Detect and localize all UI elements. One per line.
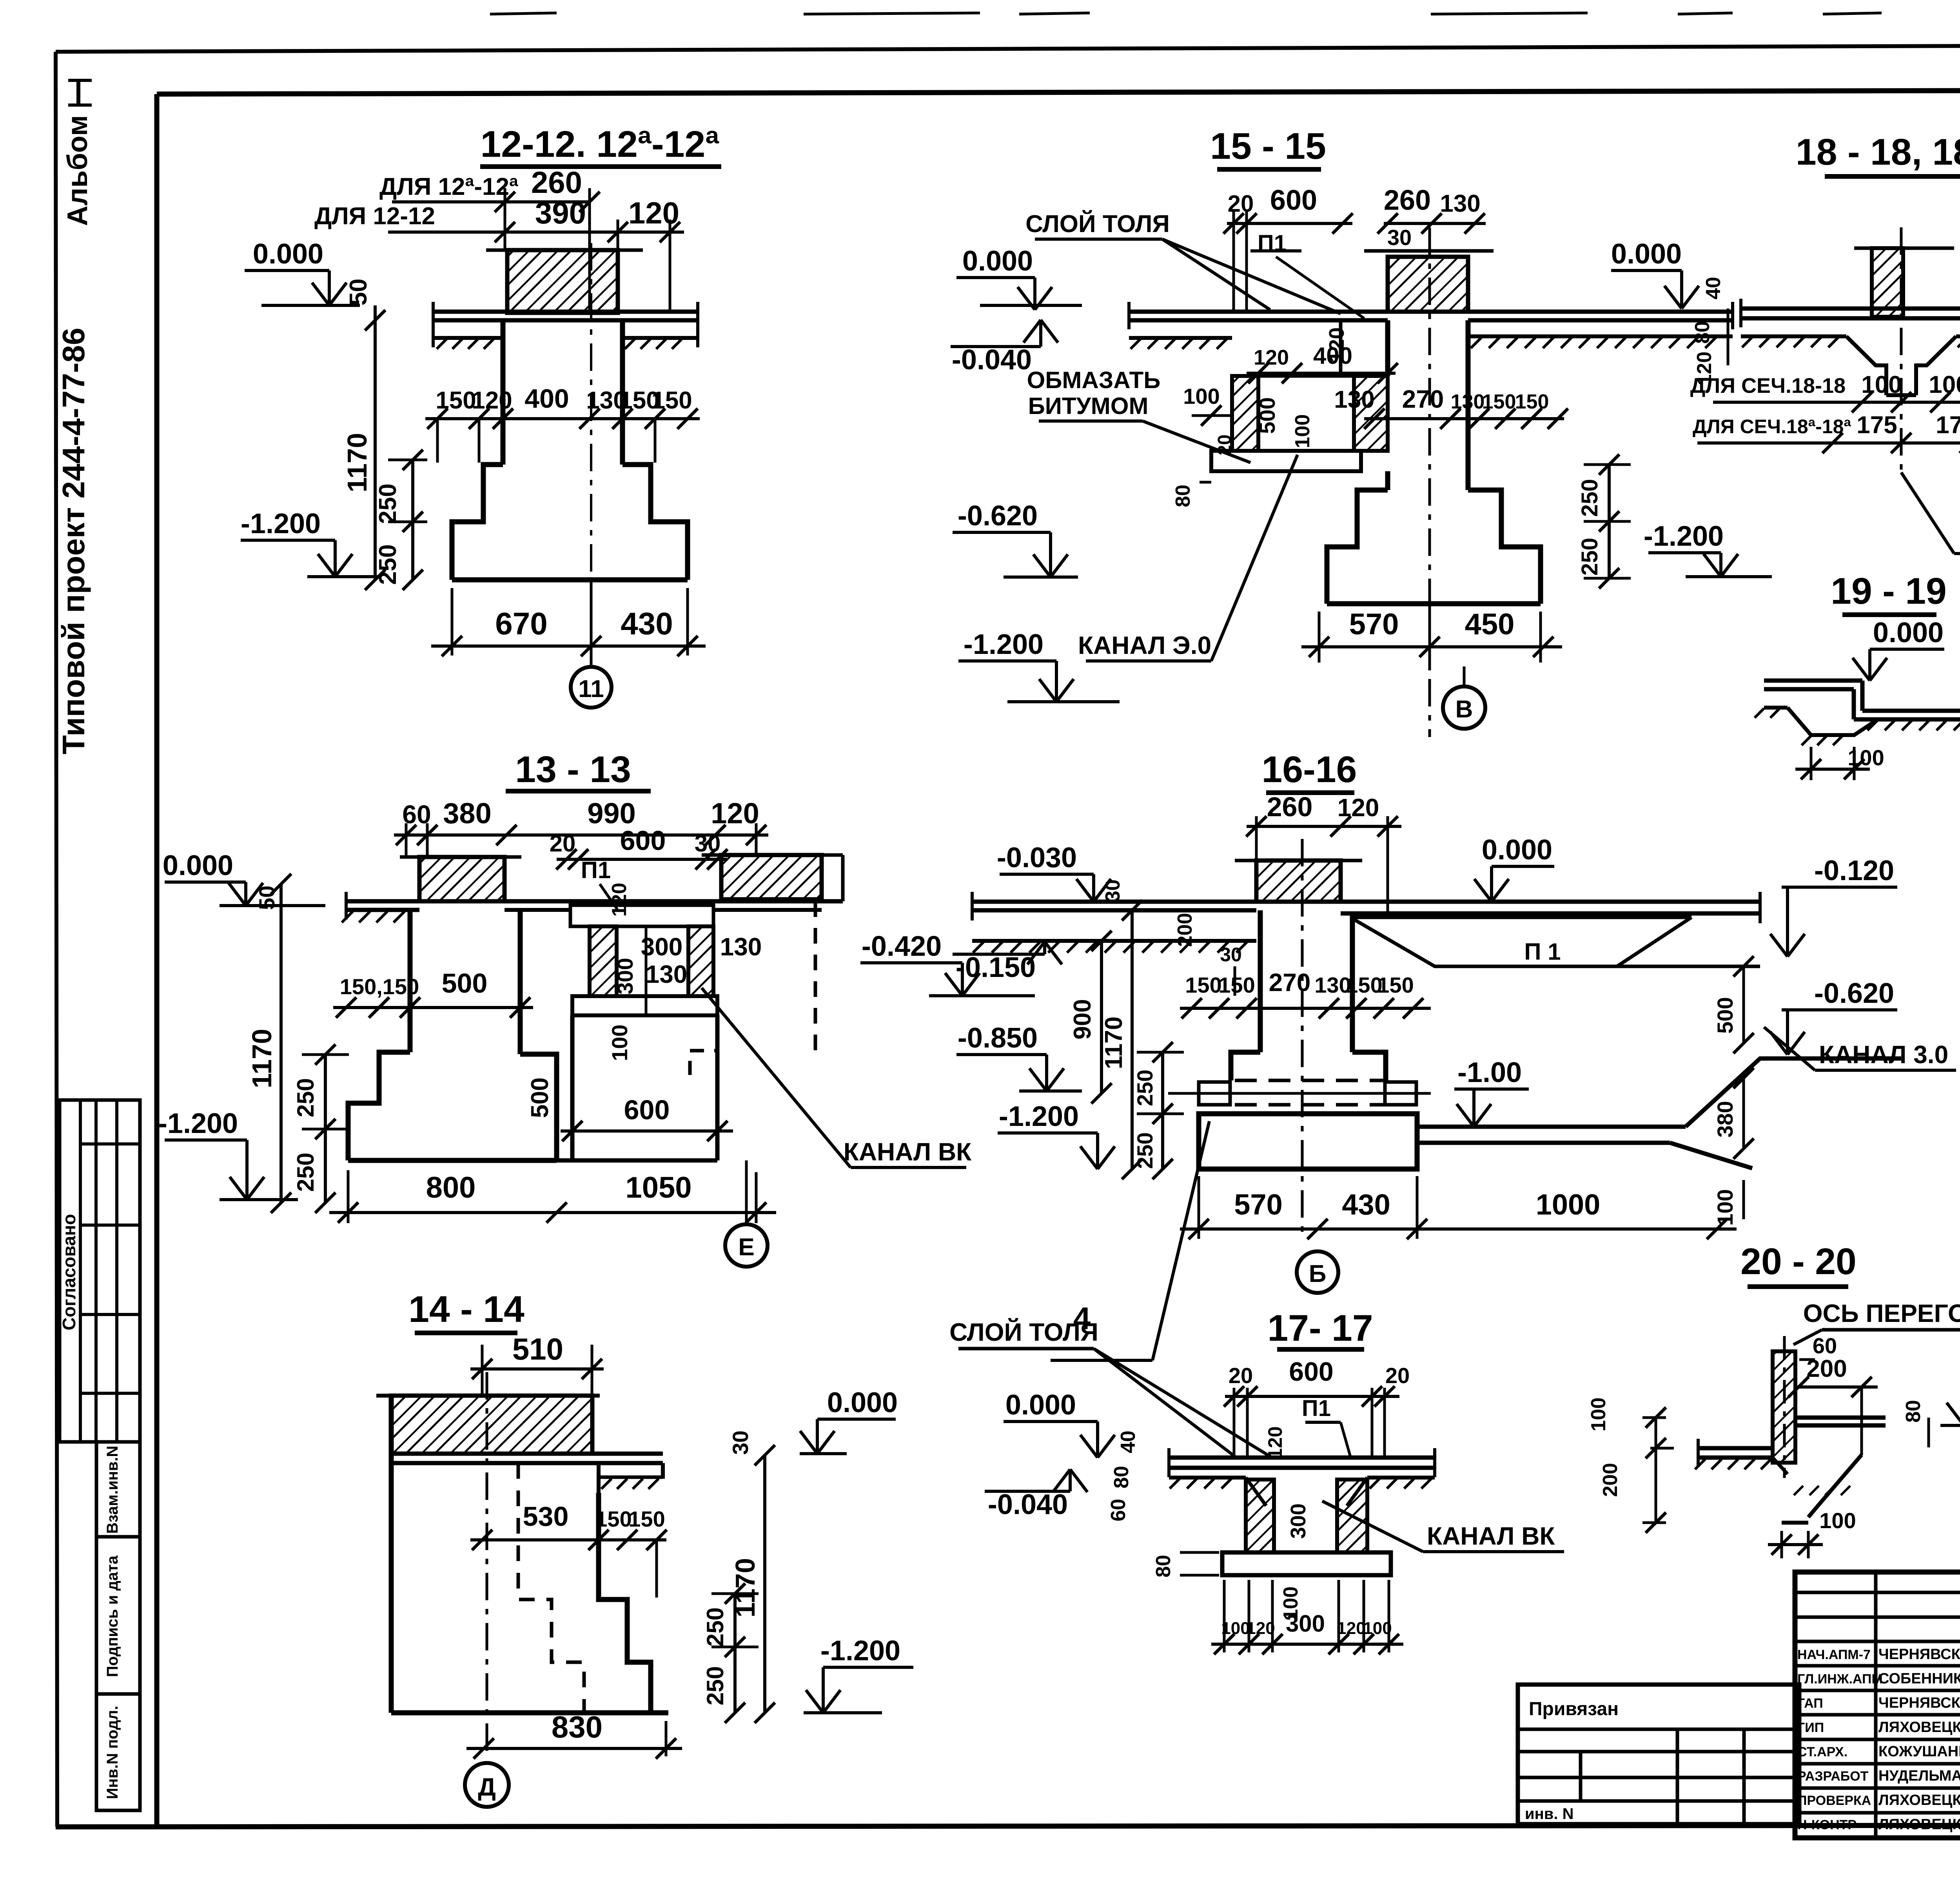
- svg-text:-0.120: -0.120: [1814, 855, 1894, 886]
- svg-text:КАНАЛ ВК: КАНАЛ ВК: [844, 1138, 972, 1166]
- svg-text:250: 250: [1132, 1132, 1157, 1169]
- svg-text:250: 250: [292, 1153, 319, 1192]
- svg-text:НУДЕЛЬМАН: НУДЕЛЬМАН: [1878, 1768, 1960, 1784]
- svg-text:130: 130: [646, 960, 688, 988]
- svg-text:150: 150: [1377, 973, 1414, 997]
- svg-text:В: В: [1455, 696, 1473, 723]
- svg-text:РАЗРАБОТ: РАЗРАБОТ: [1797, 1769, 1869, 1784]
- svg-text:100: 100: [1221, 1619, 1250, 1638]
- svg-text:400: 400: [524, 384, 569, 414]
- svg-text:120: 120: [1246, 1619, 1275, 1638]
- svg-text:ОБМАЗАТЬ: ОБМАЗАТЬ: [1027, 367, 1161, 393]
- svg-text:260: 260: [1384, 185, 1431, 216]
- svg-text:Б: Б: [1309, 1260, 1327, 1287]
- svg-text:250: 250: [702, 1607, 728, 1647]
- svg-text:Согласовано: Согласовано: [59, 1214, 79, 1331]
- svg-text:830: 830: [552, 1710, 603, 1744]
- svg-text:-0.150: -0.150: [956, 952, 1036, 983]
- svg-text:500: 500: [1713, 997, 1737, 1033]
- svg-text:30: 30: [1220, 944, 1242, 966]
- svg-text:570: 570: [1234, 1188, 1282, 1221]
- svg-text:150: 150: [652, 387, 692, 414]
- svg-text:ГИП: ГИП: [1797, 1720, 1824, 1735]
- svg-text:380: 380: [1713, 1101, 1737, 1137]
- svg-text:270: 270: [1269, 968, 1311, 997]
- svg-text:ЛЯХОВЕЦКАЯ: ЛЯХОВЕЦКАЯ: [1878, 1719, 1960, 1736]
- svg-text:П 1: П 1: [1524, 939, 1561, 965]
- svg-text:30: 30: [1387, 225, 1412, 250]
- svg-text:120: 120: [472, 387, 512, 414]
- svg-text:13 - 13: 13 - 13: [515, 749, 631, 790]
- svg-text:-0.030: -0.030: [997, 842, 1077, 873]
- svg-text:800: 800: [426, 1171, 476, 1204]
- svg-text:20: 20: [1229, 1363, 1253, 1388]
- svg-text:Инв.N подл.: Инв.N подл.: [104, 1706, 121, 1799]
- svg-text:-0.620: -0.620: [958, 500, 1038, 532]
- svg-text:50: 50: [345, 279, 372, 306]
- svg-text:КАНАЛ ВК: КАНАЛ ВК: [1427, 1522, 1555, 1550]
- svg-text:ПРОВЕРКА: ПРОВЕРКА: [1797, 1793, 1871, 1808]
- svg-text:80: 80: [1902, 1400, 1925, 1423]
- svg-text:120: 120: [1337, 1619, 1365, 1638]
- svg-text:260: 260: [1267, 792, 1313, 822]
- svg-text:14 - 14: 14 - 14: [408, 1289, 524, 1330]
- svg-text:30: 30: [728, 1431, 753, 1455]
- svg-text:0.000: 0.000: [1005, 1389, 1076, 1421]
- svg-text:100: 100: [1291, 414, 1314, 448]
- svg-text:150: 150: [628, 1507, 665, 1531]
- svg-text:100: 100: [1587, 1398, 1610, 1432]
- svg-text:20 - 20: 20 - 20: [1740, 1241, 1857, 1282]
- svg-text:150: 150: [1185, 973, 1221, 997]
- svg-text:120: 120: [1254, 346, 1289, 369]
- svg-text:ДЛЯ СЕЧ.18-18: ДЛЯ СЕЧ.18-18: [1690, 374, 1846, 398]
- svg-text:200: 200: [1599, 1463, 1622, 1497]
- svg-text:16-16: 16-16: [1262, 749, 1357, 790]
- svg-text:15 - 15: 15 - 15: [1210, 125, 1326, 167]
- svg-text:430: 430: [621, 606, 673, 641]
- svg-text:250: 250: [1577, 538, 1602, 576]
- svg-text:60: 60: [1813, 1333, 1837, 1358]
- svg-text:БИТУМОМ: БИТУМОМ: [1028, 393, 1149, 419]
- svg-text:130: 130: [720, 933, 762, 961]
- svg-text:500: 500: [442, 968, 488, 999]
- svg-text:НАЧ.АПМ-7: НАЧ.АПМ-7: [1797, 1647, 1871, 1662]
- svg-text:150,150: 150,150: [340, 974, 419, 999]
- svg-text:250: 250: [1577, 479, 1602, 517]
- svg-text:0.000: 0.000: [827, 1387, 898, 1418]
- svg-text:100: 100: [1363, 1619, 1392, 1638]
- svg-text:-1.200: -1.200: [1644, 521, 1724, 552]
- svg-text:ДЛЯ 12-12: ДЛЯ 12-12: [314, 203, 435, 230]
- svg-text:400: 400: [1313, 343, 1352, 369]
- svg-text:0.000: 0.000: [962, 245, 1033, 277]
- svg-text:175: 175: [1857, 412, 1897, 439]
- svg-text:ДЛЯ 12ª-12ª: ДЛЯ 12ª-12ª: [379, 173, 518, 200]
- svg-text:500: 500: [1255, 397, 1279, 434]
- svg-text:40: 40: [1702, 277, 1725, 300]
- svg-text:150: 150: [595, 1507, 632, 1531]
- svg-text:Привязан: Привязан: [1529, 1699, 1619, 1719]
- svg-text:-0.420: -0.420: [862, 931, 942, 962]
- svg-text:270: 270: [1402, 385, 1444, 413]
- svg-text:ДЛЯ СЕЧ.18ª-18ª: ДЛЯ СЕЧ.18ª-18ª: [1693, 416, 1851, 438]
- svg-text:120: 120: [608, 883, 631, 917]
- svg-text:900: 900: [1069, 999, 1096, 1039]
- svg-text:120: 120: [1264, 1426, 1286, 1459]
- svg-text:12-12. 12ª-12ª: 12-12. 12ª-12ª: [480, 123, 719, 165]
- svg-text:30: 30: [1102, 879, 1124, 902]
- svg-text:11: 11: [578, 675, 604, 703]
- svg-text:500: 500: [526, 1077, 554, 1118]
- svg-text:300: 300: [613, 958, 637, 994]
- svg-text:20: 20: [1228, 191, 1254, 217]
- svg-text:СОБЕННИКОВ: СОБЕННИКОВ: [1878, 1670, 1960, 1687]
- svg-text:260: 260: [531, 165, 582, 200]
- svg-text:-1.00: -1.00: [1457, 1057, 1522, 1088]
- svg-text:380: 380: [443, 797, 491, 830]
- svg-text:120: 120: [1338, 793, 1379, 822]
- svg-text:-1.200: -1.200: [158, 1108, 238, 1139]
- svg-text:100: 100: [607, 1024, 632, 1061]
- svg-text:19 - 19: 19 - 19: [1831, 570, 1947, 612]
- svg-text:1000: 1000: [1536, 1188, 1601, 1221]
- svg-text:570: 570: [1349, 608, 1399, 641]
- svg-text:80: 80: [1152, 1555, 1175, 1578]
- svg-text:300: 300: [1286, 1610, 1325, 1637]
- svg-text:-0.620: -0.620: [1814, 978, 1894, 1009]
- svg-text:ОСЬ ПЕРЕГОРОДКИ: ОСЬ ПЕРЕГОРОДКИ: [1803, 1299, 1960, 1327]
- svg-text:600: 600: [620, 825, 666, 856]
- svg-text:130: 130: [1334, 386, 1374, 413]
- svg-text:Взам.инв.N: Взам.инв.N: [104, 1446, 121, 1534]
- svg-text:КАНАЛ Э.0: КАНАЛ Э.0: [1078, 631, 1211, 659]
- svg-text:-0.040: -0.040: [952, 344, 1032, 376]
- svg-text:30: 30: [695, 830, 721, 857]
- svg-text:Альбом: Альбом: [62, 115, 93, 226]
- svg-text:Типовой проект 244-4-77-86: Типовой проект 244-4-77-86: [56, 328, 91, 754]
- svg-text:100: 100: [1183, 384, 1220, 408]
- svg-text:250: 250: [1132, 1069, 1157, 1106]
- svg-text:СЛОЙ ТОЛЯ: СЛОЙ ТОЛЯ: [949, 1318, 1098, 1346]
- svg-text:П1: П1: [1302, 1396, 1331, 1421]
- svg-text:ГЛ.ИНЖ.АПМ: ГЛ.ИНЖ.АПМ: [1797, 1672, 1883, 1687]
- svg-text:1170: 1170: [342, 433, 372, 492]
- svg-text:80: 80: [1691, 321, 1714, 344]
- svg-text:150: 150: [436, 387, 476, 414]
- svg-text:300: 300: [1287, 1503, 1310, 1539]
- svg-text:Подпись и дата: Подпись и дата: [104, 1555, 121, 1677]
- svg-text:150: 150: [1218, 973, 1255, 997]
- svg-text:-0.850: -0.850: [958, 1022, 1038, 1054]
- svg-text:120: 120: [628, 196, 679, 230]
- svg-text:20: 20: [1385, 1363, 1410, 1388]
- svg-text:250: 250: [292, 1078, 319, 1117]
- svg-text:-0.040: -0.040: [988, 1489, 1068, 1520]
- svg-text:-1.200: -1.200: [820, 1635, 900, 1667]
- svg-text:670: 670: [495, 606, 547, 641]
- svg-text:1050: 1050: [625, 1171, 691, 1204]
- svg-text:ЧЕРНЯВСКИЙ: ЧЕРНЯВСКИЙ: [1878, 1694, 1960, 1711]
- svg-text:100: 100: [1713, 1189, 1737, 1225]
- svg-text:60: 60: [1107, 1499, 1130, 1521]
- svg-text:ЛЯХОВЕЦКАЯ: ЛЯХОВЕЦКАЯ: [1878, 1792, 1960, 1808]
- svg-text:1170: 1170: [247, 1029, 277, 1088]
- svg-text:П1: П1: [581, 857, 611, 883]
- svg-text:0.000: 0.000: [163, 850, 233, 881]
- svg-text:ЛЯХОВЕЦКАЯ: ЛЯХОВЕЦКАЯ: [1878, 1816, 1960, 1833]
- svg-text:80: 80: [1172, 485, 1194, 507]
- svg-text:390: 390: [535, 196, 586, 230]
- svg-text:Е: Е: [738, 1234, 754, 1261]
- svg-text:18 - 18, 18ª- 18ª: 18 - 18, 18ª- 18ª: [1796, 131, 1960, 173]
- svg-text:-1.200: -1.200: [999, 1101, 1079, 1132]
- svg-text:инв. N: инв. N: [1525, 1805, 1573, 1823]
- svg-text:530: 530: [523, 1501, 569, 1532]
- svg-text:600: 600: [1289, 1357, 1333, 1387]
- svg-text:250: 250: [702, 1666, 728, 1705]
- svg-text:0.000: 0.000: [253, 238, 323, 270]
- svg-text:СТ.АРХ.: СТ.АРХ.: [1797, 1745, 1847, 1759]
- svg-text:Д: Д: [478, 1773, 496, 1801]
- svg-text:600: 600: [1270, 185, 1317, 216]
- svg-text:100: 100: [1819, 1508, 1856, 1533]
- svg-text:450: 450: [1465, 608, 1515, 641]
- svg-text:ГАП: ГАП: [1797, 1696, 1823, 1711]
- svg-text:990: 990: [587, 797, 635, 830]
- svg-text:200: 200: [1174, 913, 1196, 947]
- svg-text:17- 17: 17- 17: [1267, 1307, 1373, 1349]
- svg-text:40: 40: [1117, 1431, 1140, 1453]
- svg-text:430: 430: [1342, 1188, 1390, 1221]
- svg-text:0.000: 0.000: [1873, 617, 1944, 648]
- svg-text:100: 100: [1861, 371, 1902, 398]
- svg-text:100: 100: [1929, 371, 1960, 398]
- svg-text:-1.200: -1.200: [241, 508, 321, 539]
- svg-text:80: 80: [1110, 1466, 1133, 1489]
- svg-text:175: 175: [1936, 412, 1960, 439]
- svg-text:СЛОЙ ТОЛЯ: СЛОЙ ТОЛЯ: [1025, 210, 1170, 238]
- svg-text:0.000: 0.000: [1611, 238, 1682, 270]
- svg-text:600: 600: [624, 1095, 670, 1125]
- svg-text:130: 130: [1440, 190, 1480, 217]
- svg-text:КАНАЛ 3.0: КАНАЛ 3.0: [1819, 1040, 1948, 1069]
- svg-text:150: 150: [1515, 390, 1549, 413]
- svg-text:200: 200: [1806, 1355, 1847, 1382]
- svg-text:250: 250: [374, 544, 401, 585]
- svg-text:-1.200: -1.200: [964, 629, 1044, 660]
- svg-text:250: 250: [374, 483, 401, 524]
- svg-text:КОЖУШАНЫЙ: КОЖУШАНЫЙ: [1878, 1742, 1960, 1760]
- svg-text:ЧЕРНЯВСКИЙ: ЧЕРНЯВСКИЙ: [1878, 1645, 1960, 1663]
- svg-text:1170: 1170: [1100, 1017, 1127, 1069]
- svg-text:Н-КОНТР: Н-КОНТР: [1797, 1817, 1857, 1832]
- svg-text:0.000: 0.000: [1482, 834, 1552, 866]
- svg-text:120: 120: [711, 797, 759, 830]
- svg-text:510: 510: [512, 1332, 563, 1366]
